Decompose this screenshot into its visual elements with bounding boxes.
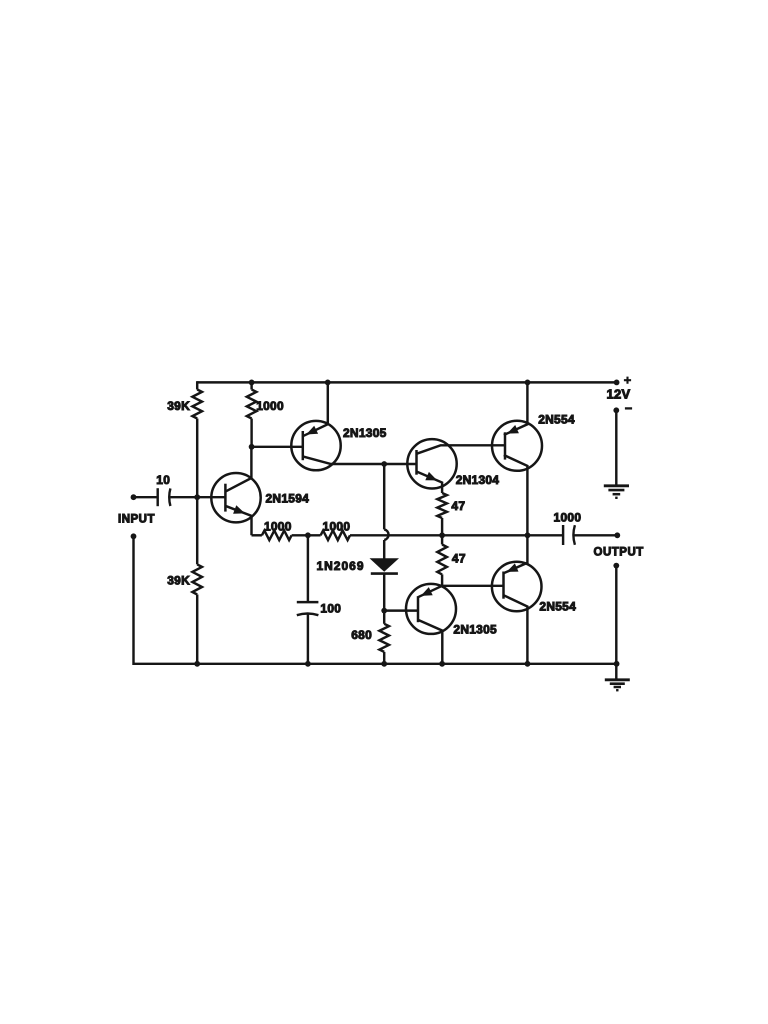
junction Q4 emitter / top rail <box>525 380 531 386</box>
wire input lower to ground rail <box>132 536 134 665</box>
wire R6 to output node <box>441 518 443 535</box>
wire OUTPUT lower to ground <box>615 566 617 680</box>
svg-text:39K: 39K <box>167 399 190 413</box>
capacitor C2 100 top plate <box>297 601 319 604</box>
resistor R7 47 (Q5 bias) <box>437 545 447 575</box>
transistor Q4 base bar <box>504 432 507 459</box>
svg-text:10: 10 <box>156 473 170 487</box>
wire left bias column middle <box>196 419 198 565</box>
transistor Q4 2N554 body <box>492 421 542 471</box>
transistor Q1 emitter arrow <box>233 505 245 513</box>
diode D1 1N2069 triangle <box>370 558 400 572</box>
wire output node to R7 <box>441 535 443 544</box>
junction R2 to ground rail <box>194 661 200 667</box>
svg-text:47: 47 <box>451 499 465 513</box>
resistor R1 39K (upper bias) <box>192 390 202 419</box>
wire -12V to ground symbol <box>615 410 617 486</box>
transistor Q3 collector lead <box>417 445 506 454</box>
capacitor C3 1000 right plate <box>573 525 575 545</box>
resistor R3 1000 (Q1 collector load) <box>247 390 257 419</box>
wire R5 to R6 node <box>350 534 442 536</box>
transistor Q2 2N1305 body <box>291 421 340 470</box>
transistor Q6 emitter arrow <box>421 587 433 596</box>
wire Q1 emitter to R4 <box>252 534 262 536</box>
svg-text:2N1304: 2N1304 <box>456 473 500 487</box>
ground symbol (supply) <box>604 486 629 498</box>
junction diode / R8 / Q6 base <box>381 608 387 614</box>
wire R3 upper lead <box>250 382 252 389</box>
wire Q5 base <box>442 585 503 587</box>
terminal +12V <box>614 380 620 386</box>
wire C1 to Q1 base <box>170 496 225 498</box>
wire R8 to ground rail <box>383 652 385 664</box>
svg-text:1000: 1000 <box>264 519 292 533</box>
capacitor C1 10 left plate <box>156 488 158 506</box>
svg-text:1N2069: 1N2069 <box>316 559 364 573</box>
svg-text:1000: 1000 <box>554 511 582 525</box>
terminal INPUT upper <box>131 494 137 500</box>
transistor Q3 emitter lead <box>417 472 443 494</box>
capacitor C2 100 bottom plate <box>297 614 319 616</box>
terminal OUTPUT lower <box>613 563 619 569</box>
resistor R4 1000 (feedback) <box>262 531 292 541</box>
wire hop to diode <box>383 540 385 559</box>
junction Q6 collector / ground rail <box>439 661 445 667</box>
wire C3 to OUTPUT terminal <box>574 534 617 536</box>
transistor Q1 emitter lead <box>226 506 251 535</box>
wire left bias column lower <box>196 595 198 664</box>
wire left bias column upper <box>196 381 198 389</box>
svg-text:680: 680 <box>351 628 372 642</box>
transistor Q3 emitter arrow <box>425 472 437 481</box>
transistor Q5 2N554 body <box>492 562 542 612</box>
resistor R2 39K (lower bias) <box>192 564 202 594</box>
transistor Q2 emitter lead <box>303 382 328 436</box>
transistor Q2 emitter arrow <box>306 426 318 435</box>
resistor R5 1000 <box>321 531 350 541</box>
transistor Q3 2N1304 body <box>407 439 456 488</box>
diode D1 cathode bar <box>371 572 398 575</box>
transistor Q4 emitter arrow <box>507 425 519 434</box>
terminal INPUT lower <box>131 533 137 539</box>
capacitor C1 10 right plate <box>169 488 170 506</box>
junction R6 R7 output node <box>439 532 445 538</box>
wire Q6 base <box>384 609 418 611</box>
svg-text:OUTPUT: OUTPUT <box>594 547 644 559</box>
svg-text:2N554: 2N554 <box>539 600 576 614</box>
terminal -12V <box>613 407 619 413</box>
transistor Q6 2N1305 body <box>406 584 456 634</box>
wire R4 to R5 <box>292 534 321 536</box>
transistor Q5 emitter arrow <box>507 563 519 572</box>
transistor Q1 2N1594 body <box>211 473 260 522</box>
svg-text:1000: 1000 <box>256 399 284 413</box>
wire input to C1 <box>134 496 157 498</box>
wire R7 to Q5 base node <box>441 574 443 585</box>
wire Q2 base <box>252 446 303 448</box>
resistor R6 47 (Q3 emitter) <box>437 493 447 518</box>
wire Q4 collector node to C3 <box>528 534 563 536</box>
transistor Q6 collector lead <box>418 620 443 664</box>
resistor R8 680 <box>379 624 389 652</box>
wire bottom ground rail <box>134 663 617 665</box>
junction Q2 emitter / top rail <box>325 380 331 386</box>
svg-text:2N1305: 2N1305 <box>453 622 497 636</box>
svg-text:12V: 12V <box>607 386 631 401</box>
label plus sign <box>624 377 631 384</box>
transistor Q1 base bar <box>224 484 227 512</box>
svg-text:39K: 39K <box>167 574 190 588</box>
svg-text:2N554: 2N554 <box>538 412 575 426</box>
junction Q1 collector / Q2 base <box>249 444 255 450</box>
transistor Q3 base bar <box>415 450 418 475</box>
wire Q6 base node to R8 <box>383 611 385 624</box>
svg-text:2N1594: 2N1594 <box>266 492 310 506</box>
wire diode to Q6 base node <box>383 574 385 611</box>
svg-text:2N1305: 2N1305 <box>343 426 387 440</box>
capacitor C3 1000 left plate <box>562 525 564 545</box>
junction Q5 collector / ground rail <box>525 661 531 667</box>
wire R6 node to Q4 collector node <box>442 534 527 536</box>
svg-text:100: 100 <box>320 601 341 615</box>
junction R4 R5 / C2 node <box>305 532 311 538</box>
transistor Q5 base bar <box>502 572 505 599</box>
transistor Q6 emitter lead <box>418 586 442 597</box>
transistor Q4 emitter lead <box>504 382 528 435</box>
svg-text:1000: 1000 <box>323 519 351 533</box>
transistor Q2 base bar <box>302 431 305 460</box>
junction C2 / ground rail <box>305 661 311 667</box>
junction R8 / ground rail <box>381 661 387 667</box>
ground symbol (output) <box>605 680 630 690</box>
svg-text:INPUT: INPUT <box>118 513 155 525</box>
junction Q2 collector / diode column <box>381 461 387 467</box>
transistor Q2 collector lead <box>303 456 417 464</box>
transistor Q6 base bar <box>417 596 420 622</box>
wire diode column upper <box>383 464 385 529</box>
wire C2 lower lead <box>307 614 309 664</box>
wire R3 lower lead <box>250 419 252 447</box>
wire C2 upper lead <box>307 535 309 602</box>
junction Q4 collector / output line <box>525 532 531 538</box>
transistor Q5 collector lead <box>504 595 528 664</box>
terminal OUTPUT upper <box>614 532 620 538</box>
svg-text:47: 47 <box>452 551 466 565</box>
transistor Q4 collector lead <box>504 455 528 535</box>
junction top rail / R3 <box>249 380 255 386</box>
wire hop over output line <box>384 529 388 540</box>
transistor Q5 emitter lead <box>504 535 528 573</box>
junction bias divider / base <box>194 494 200 500</box>
junction output ground / rail <box>614 661 620 667</box>
label minus sign <box>625 407 632 409</box>
wire top supply rail <box>197 381 616 383</box>
transistor Q1 collector lead <box>226 447 252 492</box>
